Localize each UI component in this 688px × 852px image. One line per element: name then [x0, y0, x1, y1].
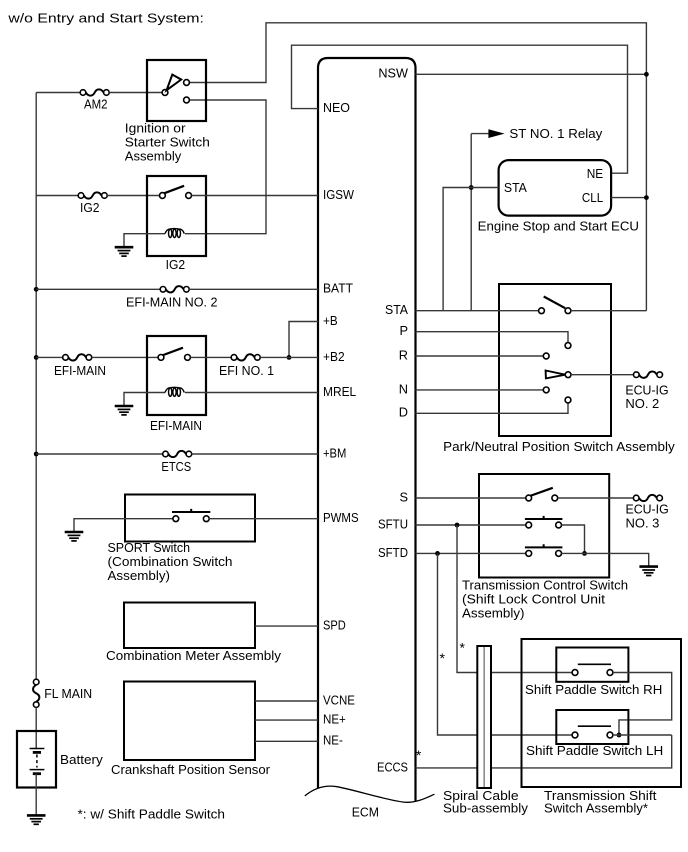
- svg-text:ETCS: ETCS: [161, 459, 191, 474]
- svg-text:EFI-MAIN NO. 2: EFI-MAIN NO. 2: [126, 295, 218, 310]
- SPORT switch contact right: [203, 516, 209, 522]
- svg-text:Assembly): Assembly): [108, 568, 171, 583]
- wire STA of ECU to ECM STA net: [443, 188, 499, 311]
- ground battery: [27, 815, 46, 824]
- svg-text:NE+: NE+: [323, 711, 346, 726]
- svg-text:+BM: +BM: [323, 445, 346, 460]
- ECM box U1: [318, 58, 416, 802]
- node bus-EFI-MAIN junction: [34, 355, 39, 360]
- fuse ECU-IG NO. 2: [634, 372, 663, 378]
- ECM bottom torn-edge wave: [305, 786, 435, 802]
- fuse IG2: [78, 192, 107, 198]
- wire R pin: [416, 355, 544, 357]
- svg-text:P: P: [399, 323, 408, 338]
- switch SPORT Switch box: [125, 495, 255, 542]
- fuse ETCS: [163, 451, 192, 457]
- svg-text:Engine Stop and Start ECU: Engine Stop and Start ECU: [478, 219, 639, 234]
- wire SFTU pin: [416, 524, 526, 526]
- svg-text:+B: +B: [323, 313, 338, 328]
- node STA branch junction: [469, 185, 474, 190]
- wire ETCS from bus: [36, 453, 163, 455]
- SFTD push bar: [525, 544, 563, 547]
- component Combination Meter Assembly box: [124, 603, 255, 649]
- wire IG2 coil to ground: [124, 234, 147, 248]
- IG2 relay coil line right: [185, 233, 206, 235]
- fuse EFI NO. 1: [231, 354, 260, 360]
- svg-text:ST NO. 1 Relay: ST NO. 1 Relay: [509, 126, 602, 141]
- svg-text:Transmission Control Switch: Transmission Control Switch: [462, 578, 628, 593]
- IG2 relay contact left: [160, 193, 166, 199]
- wire EFI-MAIN fuse to relay: [92, 356, 158, 358]
- node bus-BATT junction: [34, 287, 39, 292]
- pointer contact: [565, 372, 571, 378]
- wire ST NO.1 relay branch vertical: [470, 134, 472, 311]
- node SFTU/SFTD junction: [582, 551, 587, 556]
- wire ignition top contact to NSW net corner: [189, 23, 646, 311]
- ignition switch IG contact: [184, 97, 190, 103]
- svg-text:Switch Assembly*: Switch Assembly*: [544, 801, 648, 816]
- svg-text:BATT: BATT: [323, 281, 353, 296]
- fuse ECU-IG NO. 3: [633, 495, 662, 501]
- svg-text:ECCS: ECCS: [377, 759, 408, 774]
- svg-text:NSW: NSW: [378, 66, 409, 81]
- svg-text:R: R: [399, 347, 408, 362]
- svg-text:Assembly): Assembly): [462, 605, 525, 620]
- S blade: [531, 488, 553, 496]
- EFI-MAIN relay blade: [163, 348, 183, 355]
- ground transmission control switch: [639, 567, 658, 576]
- RH contact right: [607, 670, 613, 676]
- IG2 relay coil line left + coil: [147, 233, 165, 235]
- wire NEO to NE net: [292, 45, 628, 173]
- svg-text:D: D: [399, 405, 408, 420]
- svg-text:(Combination Switch: (Combination Switch: [108, 554, 233, 569]
- SPORT switch push bar: [172, 509, 210, 512]
- RH blade: [578, 663, 611, 665]
- svg-text:w/o Entry and Start System:: w/o Entry and Start System:: [7, 10, 204, 25]
- svg-text:SFTD: SFTD: [378, 545, 408, 560]
- svg-text:IGSW: IGSW: [323, 187, 355, 202]
- wire SPD pin: [255, 625, 318, 627]
- wire P pin: [416, 332, 569, 343]
- wire battery negative to ground: [35, 774, 37, 816]
- switch SW1 Ignition or Starter Switch Assembly box: [147, 60, 206, 121]
- svg-text:Crankshaft Position Sensor: Crankshaft Position Sensor: [111, 762, 271, 777]
- wire STA pin to park/neutral switch: [416, 310, 539, 312]
- SFTD contact right: [556, 551, 562, 557]
- P/N STA blade: [544, 297, 566, 309]
- wire pointer to ECU-IG NO.2 fuse: [571, 374, 634, 376]
- wire battery positive bus: [35, 93, 37, 680]
- svg-text:+B2: +B2: [323, 349, 345, 364]
- svg-text:Assembly: Assembly: [125, 148, 182, 163]
- R contact: [543, 353, 549, 359]
- wire ignition lower contact to IG2 relay coil: [189, 100, 266, 234]
- SFTD contact left: [526, 551, 532, 557]
- component Crankshaft Position Sensor box: [124, 682, 255, 761]
- LH contact right: [607, 732, 613, 738]
- fusible link FL MAIN: [33, 679, 39, 707]
- wire SFTD switch to ground: [562, 553, 649, 566]
- svg-text:Park/Neutral Position Switch A: Park/Neutral Position Switch Assembly: [443, 439, 675, 454]
- svg-text:PWMS: PWMS: [323, 510, 359, 525]
- S contact left: [526, 495, 532, 501]
- svg-text:NE-: NE-: [323, 733, 343, 748]
- ignition switch common contact: [162, 90, 168, 96]
- arrow to ST NO. 1 Relay: [471, 133, 489, 135]
- node bus-ETCS junction: [34, 452, 39, 457]
- svg-text:CLL: CLL: [582, 190, 603, 205]
- P/N STA contact left: [539, 308, 545, 314]
- wire S switch to ECU-IG NO.3 fuse: [558, 497, 634, 499]
- wire NE+ pin: [255, 719, 318, 721]
- svg-text:NO. 3: NO. 3: [626, 515, 660, 530]
- component Transmission Shift Switch Assembly box: [522, 639, 682, 787]
- wire PWMS pin: [209, 518, 318, 520]
- wire SFTU drop after spiral cable: [491, 672, 572, 674]
- wire SFTD pin: [416, 552, 526, 554]
- switch Park/Neutral Position Switch Assembly box: [499, 284, 611, 436]
- wire EFI-MAIN feed from bus: [36, 356, 63, 358]
- ground EFI-MAIN relay: [115, 406, 134, 415]
- svg-text:IG2: IG2: [166, 257, 186, 272]
- switch Shift Paddle Switch RH box: [556, 648, 628, 682]
- svg-text:SPORT Switch: SPORT Switch: [108, 540, 191, 555]
- fuse EFI-MAIN NO. 2: [160, 286, 189, 292]
- svg-text:EFI NO. 1: EFI NO. 1: [219, 363, 274, 378]
- relay IG2 box: [147, 176, 206, 256]
- ground SPORT switch: [65, 532, 84, 541]
- svg-text:NEO: NEO: [323, 100, 350, 115]
- svg-text:Shift Paddle Switch LH: Shift Paddle Switch LH: [526, 743, 663, 758]
- wire +B jumper to +B2 net: [289, 322, 318, 358]
- wire EFI-MAIN coil to ground: [124, 393, 147, 407]
- node +B/+B2 junction: [287, 355, 292, 360]
- relay EFI-MAIN box: [147, 336, 206, 415]
- battery BT1 box: [17, 731, 56, 788]
- wire relay to EFI NO.1 fuse: [190, 356, 231, 358]
- svg-text:*: *: [440, 650, 446, 666]
- wire SFTU drop to Shift Paddle Switch RH: [457, 525, 477, 673]
- battery plates: [30, 749, 45, 774]
- wire ECCS pin: [416, 767, 478, 769]
- EFI-MAIN relay contact right: [185, 355, 191, 361]
- svg-text:STA: STA: [385, 302, 408, 317]
- rotor pointer of park/neutral switch: [546, 371, 566, 379]
- SFTU push bar: [525, 516, 563, 519]
- ignition switch ST contact: [184, 80, 190, 86]
- svg-text:*: w/ Shift Paddle Switch: *: w/ Shift Paddle Switch: [78, 807, 226, 822]
- wire AM2 feed: [36, 92, 80, 94]
- svg-text:NO. 2: NO. 2: [625, 396, 659, 411]
- wire S pin: [416, 497, 526, 499]
- wire ETCS fuse to +BM pin: [192, 453, 318, 455]
- svg-text:EFI-MAIN: EFI-MAIN: [54, 363, 106, 378]
- svg-text:ECU-IG: ECU-IG: [625, 382, 668, 397]
- svg-text:Starter Switch: Starter Switch: [125, 135, 210, 150]
- svg-text:*: *: [416, 747, 422, 763]
- P contact: [565, 343, 571, 349]
- node SFTD junction: [435, 551, 440, 556]
- svg-text:NE: NE: [587, 166, 604, 181]
- wire P/N switch to right vertical net: [571, 310, 647, 312]
- wire SFTD drop to Shift Paddle Switch LH: [438, 553, 478, 735]
- svg-text:Shift Paddle Switch RH: Shift Paddle Switch RH: [525, 682, 662, 697]
- ECU U2 Engine Stop and Start ECU box: [499, 160, 611, 216]
- svg-text:EFI-MAIN: EFI-MAIN: [150, 418, 202, 433]
- wire RH switch to LH junction: [613, 673, 672, 736]
- EFI-MAIN relay contact left: [158, 355, 164, 361]
- svg-text:MREL: MREL: [323, 384, 356, 399]
- node SFTU junction: [455, 523, 460, 528]
- LH blade: [578, 725, 611, 727]
- wire SPORT switch to ground: [74, 519, 173, 532]
- svg-text:ECU-IG: ECU-IG: [626, 502, 669, 517]
- wire CLL to right net: [611, 197, 646, 199]
- node paddle switch junction: [617, 733, 622, 738]
- wire MREL pin from coil: [185, 392, 318, 394]
- svg-text:VCNE: VCNE: [323, 692, 355, 707]
- wire VCNE pin: [255, 700, 318, 702]
- P/N STA contact right: [565, 308, 571, 314]
- wire IGSW pin: [192, 195, 319, 197]
- EFI-MAIN relay coil line left + coil: [147, 392, 165, 394]
- wire SFTD drop after spiral cable: [491, 734, 572, 736]
- svg-text:AM2: AM2: [84, 96, 108, 111]
- wire LH switch to ECCS net: [613, 734, 672, 736]
- ignition switch key blade: [167, 75, 182, 91]
- switch Transmission Control Switch box: [479, 474, 609, 578]
- wire IG2 fuse to relay: [107, 195, 159, 197]
- IG2 relay blade: [164, 186, 184, 193]
- svg-text:Battery: Battery: [60, 752, 103, 767]
- svg-text:SFTU: SFTU: [378, 516, 408, 531]
- svg-text:*: *: [460, 640, 466, 656]
- svg-text:(Shift Lock Control Unit: (Shift Lock Control Unit: [462, 591, 605, 606]
- SPORT switch contact left: [173, 516, 179, 522]
- switch Shift Paddle Switch LH box: [556, 710, 628, 744]
- svg-text:ECM: ECM: [352, 805, 379, 820]
- wire N pin: [416, 389, 544, 391]
- node NSW junction: [644, 72, 649, 77]
- wire FL MAIN to battery: [35, 707, 37, 748]
- IG2 relay contact right: [186, 193, 192, 199]
- svg-text:STA: STA: [504, 180, 527, 195]
- ground IG2 relay: [115, 247, 134, 256]
- svg-text:S: S: [399, 489, 408, 504]
- wire EFI NO.1 fuse to +B2 pin: [260, 356, 318, 358]
- SFTU contact right: [556, 522, 562, 528]
- component Spiral Cable Sub-assembly: [477, 646, 491, 788]
- SFTU contact left: [526, 522, 532, 528]
- wire BATT from bus: [36, 288, 160, 290]
- svg-text:Combination Meter Assembly: Combination Meter Assembly: [106, 648, 282, 663]
- svg-text:Sub-assembly: Sub-assembly: [443, 801, 528, 816]
- node CLL junction: [644, 195, 649, 200]
- fuse AM2: [80, 89, 109, 95]
- S contact right: [552, 495, 558, 501]
- RH contact left: [572, 670, 578, 676]
- wire IG2 feed from bus: [36, 195, 78, 197]
- LH contact left: [572, 732, 578, 738]
- wire NSW pin: [416, 73, 647, 75]
- wire NE- pin: [255, 740, 318, 742]
- N contact: [543, 387, 549, 393]
- svg-text:SPD: SPD: [323, 617, 346, 632]
- wire EFI-MAIN NO.2 fuse to BATT pin: [189, 288, 318, 290]
- fuse EFI-MAIN: [63, 354, 92, 360]
- D contact: [565, 397, 571, 403]
- svg-text:FL MAIN: FL MAIN: [44, 686, 92, 701]
- svg-text:IG2: IG2: [80, 200, 100, 215]
- wire ECCS after spiral cable: [491, 735, 672, 768]
- wire AM2 fuse to ignition switch: [109, 92, 162, 94]
- svg-text:N: N: [399, 381, 408, 396]
- wire D pin: [416, 403, 569, 413]
- wire SFTU switch to SFTD line: [562, 525, 585, 553]
- svg-text:Ignition or: Ignition or: [125, 121, 187, 136]
